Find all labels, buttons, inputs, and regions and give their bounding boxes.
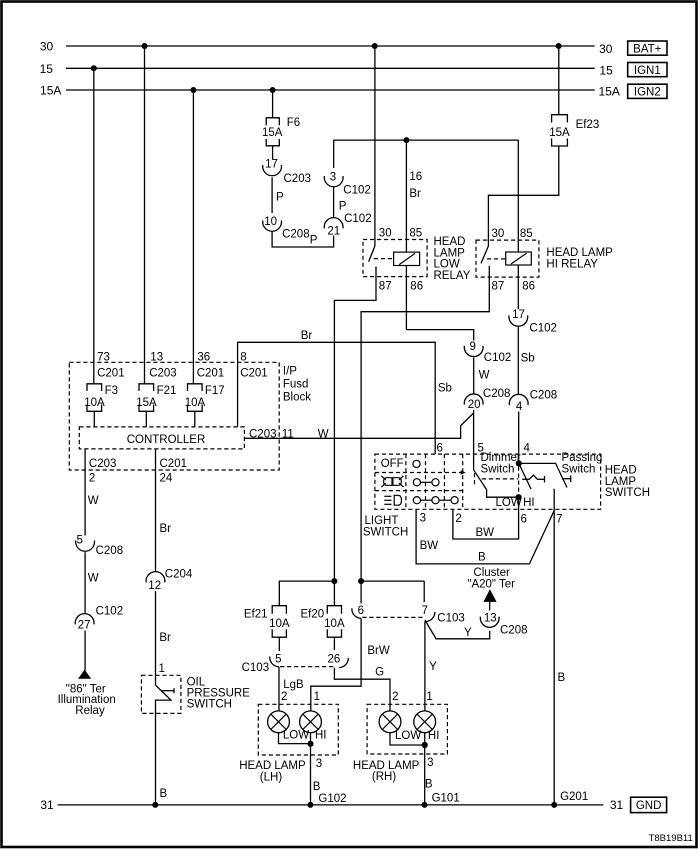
svg-text:Block: Block [283,391,311,403]
svg-text:15A: 15A [599,84,620,98]
svg-text:2: 2 [455,513,461,525]
svg-text:13: 13 [150,351,163,363]
svg-text:B: B [425,779,433,791]
svg-text:IGN1: IGN1 [634,65,661,77]
svg-text:I/P: I/P [283,365,297,377]
svg-text:2: 2 [281,691,287,703]
svg-text:LgB: LgB [283,679,304,691]
svg-text:10A: 10A [269,618,290,630]
svg-text:HEAD: HEAD [605,465,637,477]
svg-text:36: 36 [197,351,210,363]
svg-text:C102: C102 [344,213,372,225]
svg-text:11: 11 [282,428,294,440]
svg-text:C102: C102 [96,606,124,618]
svg-text:C203: C203 [149,367,177,379]
svg-text:HI: HI [428,730,440,742]
svg-text:F17: F17 [205,385,225,397]
svg-text:C201: C201 [240,367,268,379]
svg-text:LIGHT: LIGHT [365,515,399,527]
svg-text:F21: F21 [157,385,177,397]
svg-text:Switch: Switch [562,463,596,475]
svg-text:4: 4 [524,443,531,455]
svg-text:BAT+: BAT+ [633,43,662,55]
svg-text:30: 30 [40,40,54,54]
svg-text:15A: 15A [262,127,283,139]
svg-text:HEAD LAMP: HEAD LAMP [546,247,613,259]
svg-text:Sb: Sb [521,353,535,365]
svg-text:C203: C203 [249,428,277,440]
svg-text:W: W [479,370,490,382]
svg-text:3: 3 [330,171,336,183]
svg-text:B: B [160,788,168,800]
svg-text:86: 86 [522,281,535,293]
svg-text:30: 30 [379,228,392,240]
svg-text:1: 1 [426,691,432,703]
svg-text:LOW: LOW [434,259,460,271]
svg-text:HI RELAY: HI RELAY [546,258,598,270]
svg-text:CONTROLLER: CONTROLLER [127,434,206,446]
svg-text:6: 6 [521,514,527,526]
svg-text:21: 21 [327,225,340,237]
svg-text:24: 24 [160,473,173,485]
svg-text:10: 10 [264,216,277,228]
svg-text:B: B [558,672,566,684]
svg-text:Cluster: Cluster [473,567,510,579]
svg-text:86: 86 [410,281,423,293]
svg-text:1: 1 [314,691,320,703]
svg-text:31: 31 [610,798,624,812]
svg-text:C201: C201 [197,367,225,379]
svg-text:13: 13 [484,613,497,625]
svg-text:F3: F3 [105,385,118,397]
svg-text:LOW: LOW [283,730,309,742]
svg-text:87: 87 [492,281,505,293]
svg-text:P: P [276,192,284,204]
svg-text:G101: G101 [432,793,460,805]
svg-text:5: 5 [275,653,281,665]
svg-text:15A: 15A [40,84,61,98]
svg-text:C203: C203 [284,173,312,185]
svg-text:C102: C102 [343,184,371,196]
svg-text:2: 2 [89,473,95,485]
svg-text:85: 85 [409,228,422,240]
svg-text:(RH): (RH) [372,771,396,783]
svg-text:1: 1 [159,663,165,675]
svg-text:C208: C208 [96,545,124,557]
svg-text:C201: C201 [97,367,125,379]
svg-text:C208: C208 [500,625,528,637]
svg-text:W: W [88,495,99,507]
svg-text:8: 8 [240,351,246,363]
svg-text:85: 85 [520,228,533,240]
svg-text:C102: C102 [484,352,512,364]
svg-text:LAMP: LAMP [434,247,466,259]
svg-text:HEAD: HEAD [434,236,466,248]
svg-text:2: 2 [392,691,398,703]
svg-text:C103: C103 [437,613,465,625]
svg-text:Ef23: Ef23 [576,119,600,131]
svg-text:"A20" Ter: "A20" Ter [467,578,515,590]
svg-text:Y: Y [464,627,472,639]
svg-text:C208: C208 [483,388,511,400]
svg-text:B: B [478,552,486,564]
svg-text:(LH): (LH) [260,772,283,784]
svg-text:73: 73 [97,351,110,363]
svg-text:SWITCH: SWITCH [187,698,232,710]
svg-text:9: 9 [469,341,475,353]
svg-text:10A: 10A [84,397,105,409]
svg-text:GND: GND [636,800,662,812]
svg-text:C208: C208 [282,228,310,240]
svg-text:17: 17 [265,159,278,171]
svg-text:P: P [339,200,347,212]
svg-text:BW: BW [476,527,495,539]
svg-text:Br: Br [160,523,172,535]
svg-text:G201: G201 [560,791,588,803]
svg-text:Relay: Relay [75,705,105,717]
svg-text:15: 15 [599,64,613,78]
svg-text:15A: 15A [549,127,570,139]
svg-text:P: P [310,235,318,247]
svg-text:Switch: Switch [481,463,515,475]
svg-text:B: B [313,781,321,793]
svg-text:Br: Br [409,188,421,200]
svg-text:C204: C204 [165,569,193,581]
svg-text:15: 15 [40,62,54,76]
svg-text:20: 20 [468,399,481,411]
svg-text:Sb: Sb [438,383,452,395]
svg-text:HI: HI [523,497,535,509]
svg-text:Fusd: Fusd [283,378,309,390]
svg-text:Ef21: Ef21 [244,609,268,621]
svg-text:C201: C201 [160,458,188,470]
svg-text:Passing: Passing [562,452,603,464]
svg-text:3: 3 [427,757,433,769]
svg-text:HEAD LAMP: HEAD LAMP [239,760,306,772]
svg-text:3: 3 [316,758,322,770]
svg-text:10A: 10A [185,397,206,409]
svg-text:31: 31 [40,798,54,812]
svg-text:G: G [375,667,384,679]
svg-text:BW: BW [420,540,439,552]
svg-text:16: 16 [409,171,422,183]
svg-text:SWITCH: SWITCH [605,487,650,499]
svg-text:W: W [318,428,329,440]
svg-text:7: 7 [556,514,562,526]
svg-text:F6: F6 [287,117,300,129]
svg-text:12: 12 [148,580,161,592]
svg-text:30: 30 [492,228,505,240]
svg-text:Br: Br [159,632,171,644]
svg-text:T8B19B11: T8B19B11 [649,833,693,844]
svg-text:C203: C203 [89,458,117,470]
svg-text:10A: 10A [324,618,345,630]
svg-text:C103: C103 [242,662,270,674]
svg-text:BrW: BrW [367,645,390,657]
svg-text:87: 87 [379,281,392,293]
svg-text:26: 26 [328,653,341,665]
svg-text:RELAY: RELAY [434,270,471,282]
svg-text:G102: G102 [318,793,346,805]
svg-text:6: 6 [358,605,364,617]
svg-text:C208: C208 [530,390,558,402]
svg-text:Br: Br [301,330,313,342]
svg-text:C102: C102 [529,322,557,334]
svg-text:3: 3 [420,513,426,525]
svg-text:15A: 15A [136,397,157,409]
svg-text:Ef20: Ef20 [301,609,325,621]
svg-text:30: 30 [599,42,613,56]
svg-text:IGN2: IGN2 [634,87,661,99]
svg-text:LOW: LOW [395,730,421,742]
svg-text:W: W [88,573,99,585]
svg-text:7: 7 [422,605,428,617]
svg-text:4: 4 [516,401,523,413]
svg-text:5: 5 [76,535,82,547]
svg-text:LAMP: LAMP [605,476,637,488]
svg-text:SWITCH: SWITCH [363,527,408,539]
svg-text:OFF: OFF [381,458,404,470]
svg-text:17: 17 [512,309,525,321]
svg-text:27: 27 [78,620,91,632]
svg-text:6: 6 [437,443,443,455]
svg-text:HI: HI [315,730,327,742]
svg-text:Dimmer: Dimmer [481,452,521,464]
svg-text:Y: Y [429,661,437,673]
